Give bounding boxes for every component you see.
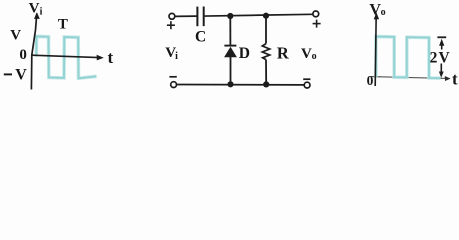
svg-text:i: i (175, 51, 178, 62)
svg-text:D: D (239, 45, 250, 62)
svg-text:o: o (312, 51, 317, 62)
svg-text:R: R (277, 44, 290, 63)
svg-text:0: 0 (367, 73, 374, 88)
svg-text:V: V (10, 27, 21, 43)
svg-text:T: T (58, 16, 68, 32)
svg-text:2V: 2V (430, 49, 451, 66)
svg-text:V: V (15, 66, 27, 83)
svg-text:t: t (108, 48, 114, 67)
svg-text:V: V (301, 46, 312, 62)
svg-text:t: t (452, 69, 458, 88)
svg-text:i: i (40, 7, 43, 18)
svg-text:0: 0 (19, 47, 27, 63)
svg-text:o: o (381, 7, 386, 18)
svg-text:V: V (369, 2, 381, 19)
svg-text:C: C (195, 28, 206, 45)
svg-text:V: V (29, 0, 40, 16)
